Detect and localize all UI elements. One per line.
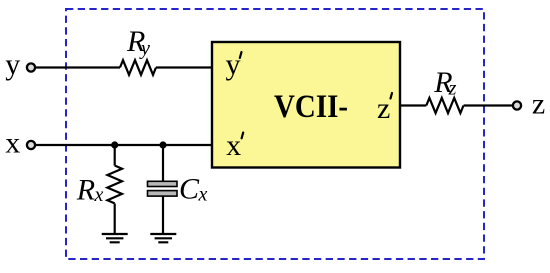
wire Cx to ground bbox=[162, 196, 164, 233]
wire Rx to ground bbox=[114, 204, 116, 234]
svg-text:R: R bbox=[76, 173, 95, 206]
ground (Cx) bbox=[150, 234, 176, 242]
resistor Rz bbox=[426, 66, 463, 113]
svg-text:y: y bbox=[5, 48, 20, 81]
pin label y' bbox=[226, 48, 242, 81]
dashed enclosure bbox=[66, 9, 484, 259]
terminal x bbox=[5, 126, 35, 159]
junction node A bbox=[111, 141, 118, 148]
wire pin z' to Rz bbox=[400, 104, 426, 106]
wire Rz to terminal z bbox=[464, 104, 513, 106]
svg-text:x: x bbox=[198, 183, 208, 205]
wire node A down bbox=[114, 145, 116, 166]
svg-text:y: y bbox=[139, 38, 150, 60]
wire x terminal to pin x' bbox=[36, 144, 213, 146]
wire Ry to pin y' bbox=[156, 66, 212, 68]
svg-text:y: y bbox=[226, 48, 241, 81]
terminal z bbox=[513, 88, 545, 121]
junction node B bbox=[159, 141, 166, 148]
pin label z' bbox=[377, 92, 392, 125]
svg-text:VCII-: VCII- bbox=[274, 89, 348, 125]
terminal y bbox=[5, 48, 35, 81]
VCII- block U1 bbox=[212, 42, 400, 168]
pin label x' bbox=[226, 129, 243, 162]
svg-text:C: C bbox=[179, 173, 200, 206]
wire y terminal to Ry bbox=[36, 66, 121, 68]
svg-text:x: x bbox=[94, 184, 104, 206]
svg-text:x: x bbox=[226, 129, 241, 162]
svg-text:z: z bbox=[532, 88, 545, 121]
svg-text:z: z bbox=[448, 77, 457, 99]
resistor Ry bbox=[120, 25, 156, 75]
svg-text:x: x bbox=[5, 126, 20, 159]
ground (Rx) bbox=[102, 234, 128, 242]
capacitor Cx bbox=[148, 173, 208, 206]
svg-text:z: z bbox=[377, 92, 390, 125]
wire node B down bbox=[162, 145, 164, 181]
resistor Rx bbox=[76, 166, 122, 207]
